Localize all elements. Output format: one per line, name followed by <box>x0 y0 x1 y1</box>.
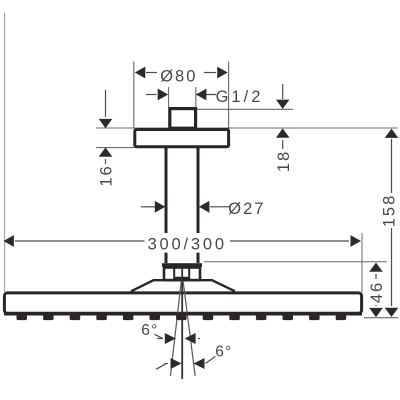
extension line stub top <box>197 108 293 110</box>
extension line left (head left edge plane) <box>4 13 6 292</box>
dimension dia80 <box>146 72 216 74</box>
svg-text:6°: 6° <box>141 322 158 339</box>
arrow 158 up <box>385 129 399 138</box>
pipe right wall <box>197 148 200 264</box>
extension line spray face right <box>364 317 398 319</box>
extension line G12 right <box>195 87 197 107</box>
arrow 16 down <box>99 119 113 128</box>
extension line dia80 left <box>133 62 135 129</box>
extension line G12 left <box>168 87 170 107</box>
arrow dia80 right <box>217 67 228 79</box>
svg-text:16: 16 <box>98 164 116 186</box>
flange plate <box>135 130 229 147</box>
arrow G12 pointing left <box>196 89 207 101</box>
dimension dia27 <box>141 206 231 208</box>
nut body <box>164 268 200 281</box>
nut inner wall right <box>188 267 190 278</box>
trapezoid escutcheon <box>131 280 235 291</box>
arrow 18 down <box>276 100 290 109</box>
leader upper left <box>155 334 163 338</box>
thread stub G1/2 <box>170 109 196 129</box>
arrow G12 pointing right <box>158 89 169 101</box>
ceiling line <box>96 127 398 129</box>
angle dim lower (right 6deg) <box>156 364 166 370</box>
svg-text:Ø80: Ø80 <box>160 68 197 86</box>
ball joint cup <box>173 277 191 282</box>
leader lower right <box>206 356 216 363</box>
svg-text:158: 158 <box>381 194 399 228</box>
head slab <box>4 293 361 313</box>
nut inner wall left <box>173 267 175 278</box>
nozzle teeth row <box>17 315 347 321</box>
head spray plate bottom edge <box>4 313 362 316</box>
centerline <box>181 268 183 379</box>
svg-text:6°: 6° <box>215 343 232 360</box>
dimension 158 right <box>391 139 393 306</box>
svg-text:G1/2: G1/2 <box>216 88 264 106</box>
arrow 300 left <box>3 235 14 247</box>
nut top bar <box>162 263 202 267</box>
dimension G1/2 <box>146 94 216 96</box>
arrow 18 up <box>276 128 290 137</box>
dimension 16 left <box>105 90 107 117</box>
arrow lower pointing right <box>171 358 182 369</box>
svg-text:300/300: 300/300 <box>148 235 227 253</box>
extension line dia80 right <box>228 62 230 129</box>
dimension 46 right <box>375 274 377 306</box>
spray line left <box>170 282 181 376</box>
arrow upper pointing left <box>185 333 196 344</box>
arrow upper pointing right <box>165 333 176 344</box>
svg-text:46: 46 <box>368 281 386 303</box>
arrow lower pointing left <box>194 358 205 369</box>
label 300/300 (with mask over pipe) <box>146 233 230 253</box>
extension line right (head right edge plane) <box>361 233 363 292</box>
arrow dia80 left <box>135 67 146 79</box>
arrow 16 up <box>99 147 113 156</box>
extension line flange bottom left <box>96 147 134 149</box>
svg-text:Ø27: Ø27 <box>228 200 265 218</box>
angle dim upper (left 6deg) <box>157 338 163 340</box>
svg-text:18: 18 <box>275 150 293 172</box>
pipe left wall <box>165 148 168 264</box>
extension line nut top right (46 top) <box>204 261 387 263</box>
arrow dia27 right <box>155 201 166 213</box>
arrow 46 down <box>369 308 383 317</box>
spray line right <box>183 282 195 376</box>
arrow 158 down <box>385 308 399 317</box>
arrow 46 up <box>369 263 383 272</box>
dimension 18 right <box>282 84 284 99</box>
arrow 300 right <box>351 235 362 247</box>
arrow dia27 left <box>199 201 210 213</box>
dimension 300/300 <box>15 240 349 242</box>
